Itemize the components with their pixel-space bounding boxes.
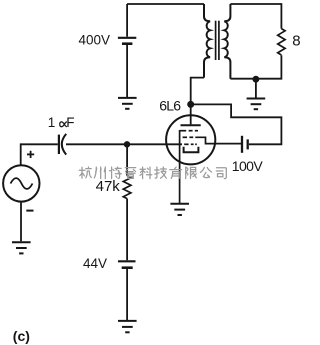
watermark char ji — [155, 167, 167, 178]
label 1 prop F — [48, 115, 75, 130]
capacitor 1uF left plate — [58, 135, 60, 154]
watermark char zhou — [94, 167, 105, 179]
wire AC source top lead — [20, 143, 22, 164]
svg-text:8: 8 — [292, 32, 300, 49]
ground (secondary center tap) — [247, 99, 266, 110]
tube grid row 2 (dashed) — [183, 136, 194, 138]
watermark hangzhou jiangrui technology co ltd — [79, 167, 226, 179]
svg-text:400V: 400V — [78, 32, 110, 47]
source VG (AC) envelope — [3, 165, 39, 201]
ground (44V battery) — [118, 321, 137, 332]
plus label — [27, 151, 34, 158]
wire secondary top to resistor — [230, 4, 281, 29]
battery 400V — [118, 38, 136, 44]
wire grid input horizontal — [66, 143, 182, 145]
svg-text:44V: 44V — [83, 256, 107, 271]
wire plate node to 100V battery right side — [194, 104, 282, 144]
minus label — [26, 210, 33, 212]
svg-text:F: F — [66, 115, 74, 130]
wire junction to ground — [255, 79, 257, 97]
ground (below 400V battery) — [118, 98, 137, 109]
node plate junction — [187, 101, 194, 108]
svg-text:(c): (c) — [13, 328, 30, 344]
wire 44V battery to ground — [126, 269, 128, 320]
tube cathode — [184, 147, 199, 152]
transformer T1 primary winding — [204, 4, 210, 78]
wire grid node to 47k — [126, 144, 128, 176]
wire primary bottom to plate node — [191, 78, 204, 102]
svg-text:6L6: 6L6 — [159, 98, 181, 114]
watermark char gong — [200, 167, 211, 177]
battery 44V — [118, 261, 136, 267]
source sine wave — [11, 178, 33, 189]
svg-text:47k: 47k — [96, 178, 121, 195]
wire top-left horizontal — [127, 3, 204, 5]
resistor R 8 ohm — [278, 29, 285, 55]
transformer T1 secondary winding — [224, 4, 230, 79]
watermark char jiang — [109, 167, 121, 179]
svg-text:100V: 100V — [232, 158, 264, 174]
wire battery 400V bottom lead — [126, 45, 128, 97]
wire screen grid to 100V battery — [195, 137, 241, 143]
tube suppressor-to-ground rail — [179, 130, 181, 203]
watermark char si — [216, 168, 226, 179]
watermark char xian — [186, 167, 197, 179]
tube 6L6 envelope — [166, 115, 215, 164]
svg-text:1: 1 — [48, 115, 56, 130]
resistor 47k — [123, 176, 131, 199]
wire resistor bottom to secondary bottom — [230, 55, 281, 78]
watermark char you — [170, 167, 182, 178]
watermark char hang — [79, 167, 91, 178]
battery 100V — [242, 136, 248, 153]
node grid junction — [124, 141, 130, 147]
ground (AC source) — [12, 242, 31, 253]
wire AC source bottom lead — [20, 202, 22, 242]
tube grid row 3 (dashed) — [184, 143, 197, 145]
ground (cathode/suppressor) — [170, 204, 189, 215]
capacitor 1uF right curved plate — [62, 134, 66, 155]
tube grid row 1 (dashed) — [180, 130, 198, 132]
wire AC source to capacitor — [21, 143, 58, 145]
node secondary-ground junction — [253, 76, 260, 83]
tube plate — [181, 104, 201, 125]
watermark char rui — [125, 168, 135, 179]
transformer core — [216, 21, 219, 60]
watermark char ke — [140, 167, 152, 179]
wire 47k to 44V battery — [126, 199, 128, 261]
wire battery 400V top lead — [126, 4, 128, 37]
